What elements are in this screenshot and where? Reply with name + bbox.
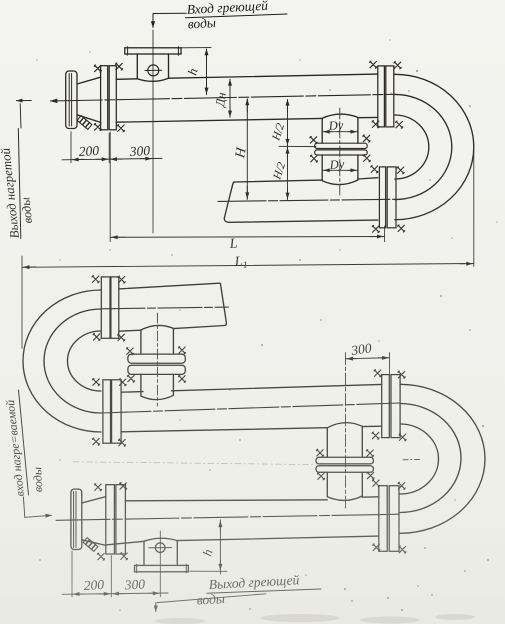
connector K2 axis: [156, 313, 158, 406]
right U-bend (calach): [400, 384, 485, 533]
central connector K1 lower shell: [322, 155, 358, 185]
Dy dimension lower: [323, 169, 358, 171]
leader: outlet heating water (bottom): [156, 594, 266, 612]
connector K3 lower shell: [327, 472, 362, 500]
right flange pair lower (bend to S2): [371, 166, 405, 233]
connector K3 axis with 300 extension: [345, 353, 347, 509]
dimension 200-300 (top): [62, 132, 162, 163]
dimension L1: [22, 150, 474, 349]
pipe section B bottom edge: [121, 426, 382, 432]
dimension L: [110, 132, 384, 242]
pipe section S2 top edge: [234, 178, 378, 182]
pipe section A bottom edge: [119, 326, 225, 332]
dimension H: [246, 99, 248, 199]
connector K1 flange pair: [310, 135, 371, 162]
outlet nozzle on C (bottom): [135, 531, 189, 580]
pipe section A axis: [101, 307, 229, 309]
dimension Dn: [229, 79, 231, 117]
centre dashes in right bend: [403, 458, 421, 460]
end cap of section S1: [66, 71, 77, 129]
left flange pair A: [92, 276, 125, 341]
left U-bend (calach): [23, 290, 101, 432]
dimension 300 (bottom): [346, 353, 390, 375]
pipe section B top edge: [121, 384, 382, 392]
leader: inlet heated water (bottom left): [23, 497, 51, 517]
label: outlet heated water (rotated, top left): [0, 147, 35, 239]
pipe section C axis: [56, 514, 400, 520]
right flange pair C (bend to C): [372, 480, 406, 554]
left flange pair C: [94, 482, 127, 560]
drain valve on S1: [77, 116, 92, 130]
U-bend (return calach) top right: [395, 74, 474, 219]
leader: outlet heated water (left): [17, 101, 32, 129]
bottom edge scanner smudges: [155, 614, 475, 624]
connector K2 upper shell: [141, 325, 174, 354]
connector K2 lower shell: [141, 374, 174, 399]
pipe section S2 axis: [218, 199, 395, 201]
joint plane dashed line (between B and C): [73, 462, 316, 465]
pipe section B axis: [101, 403, 400, 413]
pipe section A top edge: [119, 283, 227, 325]
pipe section S2 bottom edge and broken end: [224, 182, 378, 222]
pipe section S1 bottom edge: [116, 117, 378, 122]
label: inlet heating water (top): [186, 0, 268, 31]
connector K3 upper shell: [327, 423, 362, 458]
right flange pair B (to bend): [372, 370, 406, 441]
reducer cone S1: [77, 77, 101, 122]
Dy dimension upper: [323, 131, 358, 133]
connector K3 flange pair: [316, 449, 374, 480]
dimension h (top): [181, 48, 211, 95]
left flange pair of S1: [94, 63, 124, 132]
leader arrow: inlet heating water: [153, 13, 186, 27]
dimension h (bottom): [190, 520, 227, 574]
connector K1 axis: [339, 108, 341, 195]
joint plane tick (top connector): [279, 145, 316, 147]
drain valve on C: [83, 538, 98, 552]
central connector K1 upper shell: [322, 114, 358, 143]
inlet nozzle on S1: [125, 30, 181, 233]
label: outlet heating water (bottom): [196, 572, 300, 607]
pipe section S1 axis line: [50, 94, 395, 101]
left flange pair B: [93, 378, 127, 446]
dimension H/2 lower: [287, 146, 289, 199]
label: inlet heated water (rotated, bottom left): [3, 399, 45, 497]
dimension 200-300 (bottom): [62, 551, 168, 597]
connector K2 flange pair: [126, 347, 185, 383]
reducer cone C: [82, 497, 106, 546]
end cap of section C: [71, 489, 82, 549]
pipe section C top edge: [125, 497, 378, 501]
pipe section S1 top edge: [116, 74, 378, 81]
right flange pair upper (S1 to bend): [370, 61, 403, 128]
pipe section C bottom edge: [106, 536, 379, 545]
dimension H/2 upper: [287, 99, 289, 146]
